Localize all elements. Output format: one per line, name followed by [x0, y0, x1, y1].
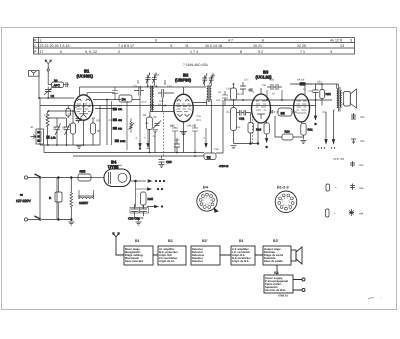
svg-text:1,5k: 1,5k	[51, 137, 56, 140]
svg-text:103: 103	[159, 100, 164, 103]
svg-text:S2: S2	[207, 155, 211, 159]
svg-text:R8: R8	[143, 114, 147, 117]
svg-text:AFC: AFC	[54, 84, 61, 88]
svg-text:1M: 1M	[145, 122, 148, 125]
svg-text:C19: C19	[226, 88, 231, 91]
svg-text:7 1: 7 1	[300, 50, 305, 54]
svg-text:3: 3	[350, 39, 352, 43]
svg-text:13: 13	[340, 44, 344, 48]
svg-text:mV . .: mV . .	[360, 139, 368, 143]
svg-text:R11: R11	[197, 119, 202, 122]
svg-text:6: 6	[262, 39, 264, 43]
svg-text:mA . .: mA . .	[359, 186, 366, 190]
svg-text:Paso mezclad.: Paso mezclad.	[125, 260, 144, 263]
svg-text:C31: C31	[262, 84, 267, 87]
svg-text:S7: S7	[156, 74, 160, 77]
svg-text:(UCH81): (UCH81)	[77, 74, 94, 79]
svg-text:Detector: Detector	[192, 260, 203, 263]
svg-text:162/27: 162/27	[79, 201, 89, 205]
svg-text:12 25: 12 25	[297, 44, 306, 48]
svg-text:3: 3	[170, 44, 172, 48]
svg-text:7 1199-40C=55k: 7 1199-40C=55k	[183, 63, 208, 67]
svg-text:P: P	[34, 50, 37, 54]
svg-text:Paso de salida: Paso de salida	[264, 260, 283, 263]
svg-text:R12: R12	[238, 93, 243, 96]
svg-text:4748 03: 4748 03	[278, 295, 288, 298]
svg-text:R: R	[34, 39, 37, 43]
svg-text:mV .: mV .	[359, 163, 365, 167]
svg-text:= .: = .	[334, 212, 337, 216]
svg-text:C11: C11	[133, 85, 138, 88]
svg-text:1k: 1k	[303, 88, 306, 91]
svg-text:104: 104	[216, 99, 221, 102]
svg-text:C33: C33	[309, 90, 314, 93]
svg-text:≈: ≈	[20, 193, 23, 199]
svg-text:mV . .: mV . .	[360, 115, 368, 119]
svg-text:8: 8	[240, 50, 242, 54]
svg-text:2k: 2k	[272, 93, 275, 96]
svg-text:R9: R9	[154, 116, 158, 119]
svg-text:mA .: mA .	[359, 212, 365, 216]
svg-text:3: 3	[289, 201, 291, 204]
svg-text:4718 02: 4718 02	[219, 165, 229, 168]
svg-text:R40: R40	[148, 197, 154, 201]
svg-text:B2′: B2′	[202, 239, 208, 243]
svg-text:R13: R13	[227, 111, 232, 114]
svg-text:L: L	[40, 39, 42, 43]
svg-text:C16: C16	[197, 115, 202, 118]
svg-text:C30: C30	[270, 79, 275, 82]
svg-text:Ampl. de F.I.: Ampl. de F.I.	[159, 260, 175, 263]
svg-text:12k: 12k	[118, 108, 123, 111]
svg-text:B4: B4	[203, 186, 209, 190]
svg-text:R18: R18	[256, 128, 262, 132]
svg-text:S4: S4	[122, 98, 126, 102]
svg-text:5: 5	[155, 39, 157, 43]
svg-text:C2: C2	[51, 94, 55, 98]
svg-text:C14: C14	[167, 85, 172, 88]
svg-text:7 4 8 9 17: 7 4 8 9 17	[118, 44, 134, 48]
svg-text:4k8: 4k8	[118, 119, 123, 122]
svg-text:Sección de alim.: Sección de alim.	[265, 289, 286, 292]
svg-text:R56: R56	[80, 170, 86, 174]
svg-text:k: k	[253, 91, 255, 94]
svg-text:B1: B1	[239, 239, 244, 243]
svg-text:4 7: 4 7	[228, 39, 233, 43]
svg-text:C34: C34	[317, 81, 322, 84]
svg-text:B6: B6	[54, 78, 58, 82]
svg-text:R22: R22	[326, 92, 332, 96]
svg-text:R: R	[49, 196, 52, 200]
svg-text:S5: S5	[281, 111, 285, 115]
svg-text:C21: C21	[244, 79, 249, 82]
svg-text:C16: C16	[190, 125, 195, 128]
svg-text:AA119: AA119	[297, 79, 305, 82]
svg-text:127-220V: 127-220V	[16, 199, 31, 203]
svg-text:4n 12 8: 4n 12 8	[330, 39, 342, 43]
svg-text:B2: B2	[168, 239, 173, 243]
svg-text:B1-2-3: B1-2-3	[277, 186, 289, 190]
svg-text:50k: 50k	[241, 119, 246, 122]
svg-text:L6: L6	[218, 91, 221, 94]
svg-text:(UBF80): (UBF80)	[175, 78, 192, 83]
svg-text:6: 6	[60, 50, 62, 54]
svg-text:Ampl. de B.F.: Ampl. de B.F.	[232, 260, 249, 263]
svg-text:9 2: 9 2	[258, 50, 263, 54]
svg-text:15 21: 15 21	[253, 44, 262, 48]
svg-text:11: 11	[185, 44, 189, 48]
svg-text:C12: C12	[142, 101, 147, 104]
svg-text:R20: R20	[285, 130, 291, 134]
svg-text:e: e	[204, 137, 206, 140]
svg-text:2: 2	[118, 50, 120, 54]
svg-text:10 5 14 18: 10 5 14 18	[205, 44, 222, 48]
svg-text:4747 39: 4747 39	[333, 157, 344, 161]
svg-text:a: a	[136, 137, 138, 140]
svg-text:17: 17	[40, 50, 44, 54]
svg-text:R4: R4	[92, 117, 96, 120]
svg-text:100k: 100k	[120, 140, 126, 143]
svg-text:B4: B4	[274, 271, 279, 275]
svg-text:S8: S8	[212, 75, 216, 78]
svg-text:C26: C26	[166, 160, 172, 164]
svg-text:= .: = .	[335, 186, 338, 190]
svg-text:C: C	[34, 44, 37, 48]
svg-text:9, 5, 12: 9, 5, 12	[85, 50, 97, 54]
svg-text:R14: R14	[236, 126, 241, 129]
svg-text:3: 3	[330, 50, 332, 54]
svg-text:1 7 4: 1 7 4	[190, 50, 198, 54]
svg-text:B1: B1	[135, 239, 140, 243]
svg-text:C17: C17	[175, 139, 180, 142]
svg-text:R21: R21	[308, 128, 314, 132]
svg-text:b: b	[145, 137, 147, 140]
svg-text:B3′: B3′	[273, 239, 279, 243]
svg-text:56k: 56k	[118, 128, 123, 131]
svg-text:C18: C18	[214, 148, 219, 151]
svg-text:C10: C10	[117, 105, 122, 108]
svg-text:23 22 20 26 1 6 16: 23 22 20 26 1 6 16	[40, 44, 70, 48]
svg-text:S1: S1	[31, 126, 35, 129]
svg-text:C7: C7	[68, 113, 72, 116]
